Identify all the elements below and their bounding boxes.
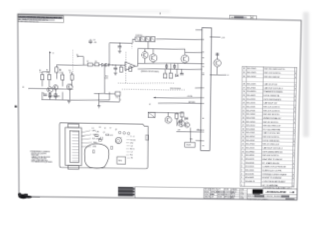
transistor Q4 (pass)	[142, 52, 149, 59]
resistor R19	[169, 73, 172, 78]
crowbar SCR Q9	[165, 116, 172, 123]
resistor R8 (series)	[95, 63, 99, 66]
leader callouts to J1	[81, 130, 92, 146]
right-side callout labels	[126, 136, 136, 159]
svg-text:302-47002: 302-47002	[246, 144, 256, 146]
svg-text:5: 5	[293, 163, 294, 165]
svg-text:17: 17	[242, 125, 245, 127]
transistor Q3	[67, 84, 73, 90]
svg-text:440-00181: 440-00181	[245, 174, 255, 176]
wire: divider leg	[98, 93, 100, 105]
wire up to fuse row	[132, 39, 134, 43]
svg-text:430-00031: 430-00031	[245, 177, 255, 179]
transistor Q7 (driver right)	[214, 59, 221, 67]
svg-text:CR2: CR2	[130, 143, 133, 145]
svg-text:E4: E4	[131, 158, 133, 160]
svg-text:11: 11	[242, 147, 245, 149]
dashed remote sense + label	[122, 89, 185, 91]
title block: black stamp	[252, 189, 262, 193]
svg-text:5: 5	[120, 100, 121, 102]
svg-text:SOCKET TO-3 W/HDW: SOCKET TO-3 W/HDW	[262, 177, 281, 179]
wire: R1 top rail	[42, 71, 49, 73]
wire: left stub mid	[195, 87, 202, 89]
capacitor C1 with ground	[119, 43, 121, 46]
transistor Q1	[47, 87, 53, 93]
svg-text:ORN: ORN	[93, 146, 97, 148]
svg-text:+V: +V	[52, 53, 55, 55]
svg-text:RES 4.7K 1/4 W 5%: RES 4.7K 1/4 W 5%	[263, 110, 280, 112]
svg-text:C7: C7	[109, 127, 111, 129]
svg-text:OVP: OVP	[177, 130, 180, 132]
wire	[93, 64, 95, 66]
stub: bus lower	[195, 139, 202, 141]
misc small parts on PCB	[93, 134, 112, 154]
wire: input signal line	[29, 87, 64, 90]
svg-text:430-00121: 430-00121	[245, 159, 255, 161]
svg-text:24: 24	[242, 99, 245, 101]
notes list (left of PCB detail)	[30, 150, 52, 164]
svg-text:20: 20	[242, 114, 245, 116]
wire: cluster to bus	[176, 130, 202, 133]
svg-text:2: 2	[293, 152, 294, 154]
scanner smudge top	[20, 10, 170, 13]
diode CR1	[102, 63, 105, 66]
svg-text:8: 8	[295, 73, 296, 75]
svg-text:23: 23	[242, 102, 245, 104]
title block	[135, 187, 297, 200]
wire: upper chain	[57, 64, 88, 65]
svg-text:100-600-15: 100-600-15	[245, 181, 255, 183]
svg-text:C4: C4	[130, 152, 132, 154]
svg-text:302-22005: 302-22005	[247, 68, 257, 70]
svg-text:MODEL: MODEL	[204, 191, 209, 193]
resistor R2	[48, 75, 51, 80]
svg-text:PC BOARD 100-410: PC BOARD 100-410	[262, 162, 280, 165]
wire: right rail up	[108, 92, 110, 100]
svg-text:DIODE 1N4002 1A: DIODE 1N4002 1A	[264, 94, 280, 97]
link box F1	[135, 37, 139, 42]
svg-text:R6: R6	[59, 70, 61, 72]
wire: top distribution	[109, 42, 132, 45]
svg-text:2. REF DESIG PER MIL-STD: 2. REF DESIG PER MIL-STD	[18, 21, 39, 23]
svg-text:RES 10K 1/4 W 5%: RES 10K 1/4 W 5%	[263, 114, 279, 116]
svg-text:604-04041: 604-04041	[245, 170, 255, 172]
svg-text:USED ON: USED ON	[204, 196, 210, 198]
svg-text:+5V 4A: +5V 4A	[187, 95, 193, 98]
svg-text:2.2K: 2.2K	[39, 72, 42, 74]
svg-text:Q2: Q2	[115, 129, 117, 131]
svg-text:9: 9	[295, 88, 296, 90]
wire: from link boxes down	[147, 41, 149, 48]
svg-text:DRAWN: DRAWN	[231, 188, 236, 191]
svg-text:TERMINAL TURRET SWAGE: TERMINAL TURRET SWAGE	[262, 173, 287, 176]
resistor R17a	[174, 65, 176, 68]
svg-text:9: 9	[294, 122, 295, 124]
wire: collector to bus	[185, 51, 202, 54]
svg-text:5: 5	[294, 96, 295, 98]
svg-text:9: 9	[293, 156, 294, 158]
svg-text:6: 6	[293, 178, 294, 180]
component U1 outline on PCB	[117, 157, 126, 164]
svg-text:SCREW 4-40 X 1/4 PHL: SCREW 4-40 X 1/4 PHL	[262, 170, 283, 172]
notes block (general notes, top-left)	[18, 15, 64, 24]
svg-text:CAP 250UF 25V ELECT: CAP 250UF 25V ELECT	[263, 147, 284, 150]
svg-text:R22: R22	[110, 135, 113, 137]
svg-text:REMOTE SENSE: REMOTE SENSE	[170, 88, 181, 90]
svg-text:LIST OF MATERIAL: LIST OF MATERIAL	[262, 184, 279, 187]
svg-text:RES 3.3K 1/4 W 5%: RES 3.3K 1/4 W 5%	[263, 137, 280, 139]
title block: number row	[247, 193, 297, 196]
wire: emitter bus	[138, 62, 202, 64]
wire: cluster top	[150, 111, 184, 114]
svg-text:CAP .01 UF 50V: CAP .01 UF 50V	[264, 83, 278, 86]
svg-text:305-25121: 305-25121	[246, 147, 256, 149]
transistor Q8 (TO-39 can, top view)	[115, 137, 121, 143]
svg-text:305-10151: 305-10151	[246, 102, 256, 104]
svg-text:SIZE FSCM: SIZE FSCM	[247, 196, 256, 198]
svg-text:+ 100: + 100	[93, 42, 97, 44]
potentiometer R5 (input adjust)	[49, 53, 51, 72]
svg-text:POT 500 OHM TRIM: POT 500 OHM TRIM	[263, 129, 280, 131]
svg-text:8: 8	[293, 174, 294, 176]
wire	[118, 96, 120, 102]
svg-text:303-56102: 303-56102	[246, 125, 256, 127]
svg-text:R12: R12	[130, 155, 133, 157]
wire: emitter drops to ground rail	[49, 93, 51, 100]
svg-text:RETURN: RETURN	[188, 102, 195, 104]
svg-text:6: 6	[295, 77, 296, 79]
svg-text:CAP 47UF 25V ELECT: CAP 47UF 25V ELECT	[264, 87, 284, 90]
svg-text:+: +	[126, 69, 128, 71]
svg-text:Q1: Q1	[103, 132, 105, 134]
svg-text:+5 VDC REGULATOR ASSY: +5 VDC REGULATOR ASSY	[262, 180, 286, 183]
svg-text:DIODE 1N914B SIG: DIODE 1N914B SIG	[263, 140, 280, 142]
svg-text:10K: 10K	[46, 72, 48, 74]
connector J1 (D-sub, side view)	[65, 124, 81, 169]
svg-text:R1: R1	[39, 70, 41, 72]
svg-text:C1 .01: C1 .01	[130, 137, 135, 139]
svg-text:TRANSISTOR 2N3055: TRANSISTOR 2N3055	[264, 90, 284, 93]
scan smudge / corner blob (decorative ink blot drawn as element)	[18, 193, 40, 199]
svg-text:Q3: Q3	[130, 146, 132, 148]
svg-text:CR1: CR1	[96, 131, 99, 133]
ground symbol	[97, 105, 100, 107]
svg-text:22: 22	[242, 106, 245, 108]
wire	[94, 92, 105, 94]
svg-text:301-01041: 301-01041	[246, 133, 256, 135]
svg-text:C2: C2	[42, 92, 44, 94]
svg-text:REG: REG	[118, 160, 122, 162]
svg-text:C9: C9	[93, 40, 95, 42]
svg-text:32: 32	[243, 68, 246, 70]
svg-text:19: 19	[242, 117, 245, 119]
resistor R1	[41, 75, 44, 80]
svg-text:4: 4	[241, 173, 243, 175]
svg-text:RES 100 OHM 2W: RES 100 OHM 2W	[264, 76, 280, 78]
capacitor C9 (input filter)	[89, 39, 91, 41]
link box F3	[146, 37, 150, 42]
svg-text:28: 28	[243, 83, 246, 85]
resistor R9 (vert)	[120, 67, 123, 72]
resistor R16	[175, 114, 178, 119]
svg-text:8: 8	[293, 141, 294, 143]
svg-text:CAP 100UF 15V: CAP 100UF 15V	[263, 102, 277, 105]
wire: op-amp output	[135, 65, 137, 67]
svg-text:303-10102: 303-10102	[247, 76, 257, 78]
svg-text:7-12: 7-12	[240, 191, 243, 193]
box: shunt R18	[185, 142, 195, 147]
svg-text:302-33202: 302-33202	[246, 136, 256, 138]
svg-text:3: 3	[294, 133, 295, 135]
resistor R10	[115, 92, 120, 96]
svg-text:210-22221: 210-22221	[247, 99, 257, 101]
svg-text:E1: E1	[92, 128, 94, 130]
svg-text:210-39042: 210-39042	[246, 151, 256, 153]
resistor R15	[177, 64, 179, 70]
svg-text:R1: R1	[99, 127, 101, 129]
wire: link row to bus	[156, 38, 202, 40]
diode CR2	[106, 63, 109, 66]
capacitor C3 with ground	[114, 65, 116, 67]
transistor Q2	[53, 85, 58, 90]
relay K1	[148, 112, 155, 117]
svg-text:BLK 22GA: BLK 22GA	[92, 137, 101, 140]
svg-text:+S: +S	[227, 75, 229, 77]
connector J1 pins	[72, 132, 79, 161]
parts list table (list of materials)	[240, 66, 297, 187]
svg-text:302-10302: 302-10302	[246, 114, 256, 116]
svg-text:RES 220 OHM 1/4 W 5%: RES 220 OHM 1/4 W 5%	[264, 69, 285, 71]
svg-text:315-05001: 315-05001	[246, 129, 256, 131]
svg-text:R4 220: R4 220	[130, 140, 135, 142]
svg-text:MODEL: MODEL	[224, 189, 229, 191]
svg-text:ZENER 1N753A 6.2V: ZENER 1N753A 6.2V	[263, 117, 281, 120]
wire: left vertical	[137, 49, 139, 64]
resistor R7 (series)	[88, 63, 93, 66]
resistor R14	[173, 64, 175, 70]
svg-text:302-47201: 302-47201	[246, 110, 256, 112]
emitter resistor RE1	[49, 94, 51, 97]
wire: +sense	[153, 97, 202, 98]
svg-text:SCALE NONE | WT | SHEE: SCALE NONE | WT | SHEET 1	[247, 198, 268, 201]
svg-text:MATCHED PAIR: MATCHED PAIR	[49, 95, 60, 98]
TB1 terminal ticks	[201, 39, 206, 146]
wire: stub at bus top	[196, 29, 203, 31]
svg-text:CAP .1 UF 50V CER: CAP .1 UF 50V CER	[263, 132, 280, 135]
transistor Q11	[184, 122, 189, 127]
diode CR3	[175, 74, 178, 77]
capacitor C6	[180, 72, 184, 74]
svg-text:302-68201: 302-68201	[245, 155, 255, 157]
svg-text:3: 3	[294, 100, 295, 102]
svg-text:MODEL: MODEL	[218, 197, 223, 199]
svg-text:CR5: CR5	[115, 97, 118, 99]
emitter resistor RE2	[54, 94, 56, 97]
svg-text:202-07531: 202-07531	[246, 118, 256, 120]
zone tick, left margin	[15, 105, 17, 107]
svg-text:5: 5	[294, 130, 295, 132]
svg-text:100-04101: 100-04101	[245, 162, 255, 164]
small parts cluster	[181, 117, 183, 126]
svg-text:E2: E2	[149, 104, 151, 106]
svg-text:KWM: KWM	[240, 189, 244, 191]
svg-text:RES 6.8K 1/4 W 5%: RES 6.8K 1/4 W 5%	[262, 155, 279, 157]
svg-text:7-12: 7-12	[240, 196, 243, 198]
resistor R6 (pot)	[55, 67, 58, 72]
resistor R3	[61, 75, 64, 80]
title block: sheet row	[247, 188, 297, 191]
svg-text:27: 27	[243, 87, 246, 89]
svg-text:4.7K: 4.7K	[60, 72, 63, 74]
link box F4	[151, 37, 155, 42]
svg-text:302-22201: 302-22201	[246, 106, 256, 108]
svg-text:25: 25	[242, 95, 245, 97]
svg-text:DWG NO. 100-600-15: DWG NO. 100-600-15	[266, 196, 282, 198]
svg-text:8: 8	[294, 107, 295, 109]
svg-text:SHUNT: SHUNT	[186, 145, 191, 147]
svg-text:2: 2	[295, 84, 296, 86]
wire: Q7 emitter to bus	[216, 67, 218, 75]
resistor R12	[165, 64, 167, 70]
svg-text:R7: R7	[87, 61, 89, 63]
svg-text:410-00221: 410-00221	[245, 166, 255, 168]
svg-text:21: 21	[242, 110, 245, 112]
svg-text:XSTR 2N3904 NPN SIG: XSTR 2N3904 NPN SIG	[262, 151, 282, 153]
svg-text:RES 1.2K 1/4 W 5%: RES 1.2K 1/4 W 5%	[264, 73, 281, 75]
svg-text:USED ON: USED ON	[224, 194, 230, 196]
svg-text:6: 6	[294, 111, 295, 113]
transistor Q6 (pass)	[181, 55, 189, 63]
resistor R10b (vert)	[129, 67, 132, 71]
wire: output sense line	[138, 68, 202, 70]
wire: top feed arrow	[78, 55, 84, 57]
svg-text:2: 2	[292, 185, 293, 187]
svg-text:31: 31	[243, 72, 246, 74]
svg-text:C9, TRANSISTORS Q8 2N3055: C9, TRANSISTORS Q8 2N3055	[31, 161, 52, 164]
svg-text:RES 47 OHM 1/4 W: RES 47 OHM 1/4 W	[263, 144, 279, 146]
revision block (top-right)	[230, 15, 257, 19]
svg-text:+5V REGULATOR: +5V REGULATOR	[265, 190, 286, 194]
svg-text:USED ON: USED ON	[211, 189, 217, 191]
svg-text:302-10203: 302-10203	[246, 121, 256, 123]
capacitor C8	[216, 53, 218, 60]
wire: lower tie	[99, 101, 119, 104]
transistor Q5 (pass)	[149, 54, 157, 62]
dashed PCB boundary	[125, 52, 127, 83]
PCB assembly detail box	[60, 123, 149, 169]
svg-text:201-09141: 201-09141	[246, 140, 256, 142]
zone tick, top margin	[159, 13, 162, 15]
top interior labels	[92, 127, 117, 137]
stub arrow into bus	[196, 129, 202, 131]
transistor Q10	[178, 120, 185, 127]
svg-text:12: 12	[242, 144, 245, 146]
svg-text:2: 2	[294, 118, 295, 120]
node dot	[111, 64, 114, 67]
svg-text:6: 6	[293, 144, 294, 146]
svg-text:10: 10	[241, 151, 244, 153]
wire to rail	[109, 64, 125, 67]
svg-text:6: 6	[241, 166, 243, 168]
svg-text:(PRINTED CIRCUIT BOARD): (PRINTED CIRCUIT BOARD)	[141, 70, 159, 73]
svg-text:30: 30	[243, 76, 246, 78]
svg-text:R4: R4	[69, 70, 71, 72]
svg-text:RES 1K 1/4 W 5%: RES 1K 1/4 W 5%	[263, 122, 278, 124]
svg-text:F1 F2 F3 F4: F1 F2 F3 F4	[135, 35, 142, 37]
title block: application table	[204, 188, 234, 199]
svg-text:302-12025: 302-12025	[247, 72, 257, 74]
svg-text:R2: R2	[46, 70, 48, 72]
svg-text:R8: R8	[95, 61, 97, 63]
op-amp U2	[125, 62, 135, 71]
wire: -sense	[158, 103, 202, 104]
svg-text:GND: GND	[190, 139, 194, 141]
wire: mid vertical	[103, 65, 105, 93]
svg-text:HEAT SINK TO-3 ALUM: HEAT SINK TO-3 ALUM	[262, 158, 282, 161]
release stamp block (dense)	[118, 187, 135, 197]
ground symbol	[67, 100, 70, 102]
capacitor C2	[43, 93, 47, 95]
svg-text:15: 15	[242, 132, 245, 134]
svg-text:+12V: +12V	[221, 37, 226, 39]
svg-text:XSTR 2N2222A NPN: XSTR 2N2222A NPN	[264, 98, 282, 101]
mounting holes (3)	[119, 131, 121, 134]
link box F2	[141, 37, 145, 42]
svg-text:RES 560 OHM 1/2 W: RES 560 OHM 1/2 W	[263, 125, 281, 127]
svg-text:D: D	[293, 192, 295, 195]
svg-text:3: 3	[241, 177, 243, 179]
svg-text:CHECK: CHECK	[231, 191, 236, 193]
resistor R17	[181, 112, 184, 117]
zener VR1	[185, 117, 188, 120]
svg-text:1K: 1K	[69, 72, 71, 74]
svg-text:8: 8	[241, 159, 243, 161]
border frame	[18, 14, 302, 200]
wire: collector rail	[138, 48, 185, 50]
svg-text:3: 3	[293, 167, 294, 169]
svg-text:RES 2.2K 1/4 W 5%: RES 2.2K 1/4 W 5%	[263, 107, 280, 109]
svg-text:E1: E1	[22, 87, 24, 89]
svg-text:KWM: KWM	[240, 194, 244, 196]
svg-text:210-30550: 210-30550	[247, 91, 257, 93]
svg-text:305-47601: 305-47601	[247, 87, 257, 89]
terminal strip TB1 (tall box)	[201, 28, 212, 151]
svg-text:26: 26	[243, 91, 246, 93]
resistor R4	[71, 75, 74, 80]
title block: revision cell marks	[281, 195, 289, 197]
resistor R18a	[163, 74, 166, 79]
scanner streak right edge	[303, 12, 309, 137]
svg-text:201-40021: 201-40021	[247, 95, 257, 97]
svg-text:TP: TP	[104, 128, 106, 130]
svg-text:2: 2	[241, 181, 243, 183]
svg-text:9: 9	[241, 155, 243, 157]
svg-text:7: 7	[241, 162, 243, 164]
svg-text:13: 13	[242, 140, 245, 142]
svg-text:14: 14	[242, 136, 245, 138]
resistor R16a	[166, 65, 168, 68]
svg-text:6.2V: 6.2V	[105, 78, 109, 80]
svg-text:CONNECTOR 22 PIN EDGE: CONNECTOR 22 PIN EDGE	[262, 166, 286, 168]
wire bundle loop (large blob outline)	[85, 143, 109, 168]
svg-text:16: 16	[242, 129, 245, 131]
svg-text:R9 1K: R9 1K	[130, 149, 135, 151]
resistor R13	[170, 64, 172, 70]
wire: +12V stub	[210, 36, 221, 38]
ground rail	[41, 99, 109, 101]
svg-text:301-01035: 301-01035	[247, 84, 257, 86]
svg-text:18: 18	[242, 121, 245, 123]
